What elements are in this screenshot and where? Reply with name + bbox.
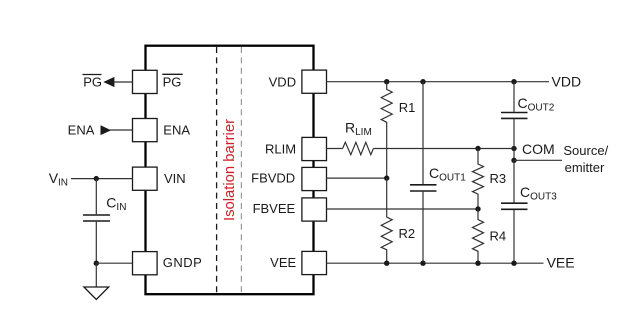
pin ENA box	[133, 119, 158, 142]
node PG (external label with overline)	[83, 74, 103, 89]
isolation barrier dashed line right	[240, 47, 242, 293]
junction VDD/COUT2	[511, 79, 516, 84]
pin label FBVDD (inside)	[251, 171, 295, 186]
svg-text:VDD: VDD	[269, 74, 296, 89]
resistor RLIM	[343, 142, 374, 154]
wire FBVEE to R3/R4 node	[327, 208, 479, 210]
wire COUT2 top	[513, 82, 515, 112]
junction CIN/GNDP	[94, 261, 99, 266]
RLIM value label	[345, 119, 372, 138]
wire RLIM pin to resistor	[327, 148, 343, 150]
wire RLIM resistor to COM	[373, 148, 514, 150]
isolation barrier label	[222, 119, 238, 221]
svg-text:Isolation barrier: Isolation barrier	[222, 119, 238, 221]
svg-text:RLIM: RLIM	[265, 142, 296, 157]
junction COM/R3	[475, 146, 480, 151]
wire COUT3 to VEE rail	[513, 210, 515, 263]
svg-text:PG: PG	[163, 74, 182, 89]
svg-text:FBVDD: FBVDD	[251, 171, 295, 186]
R4 value label	[490, 228, 507, 243]
IC U1 body (isolated gate driver outline)	[146, 46, 314, 295]
pin label ENA (inside)	[163, 122, 190, 137]
wire COUT1 to VEE rail	[422, 192, 424, 264]
junction VIN/CIN	[94, 176, 99, 181]
pin VIN box	[133, 167, 158, 190]
resistor R4	[473, 209, 484, 263]
junction VEE/COUT3	[511, 261, 516, 266]
svg-text:R2: R2	[399, 226, 416, 241]
pin label VDD (inside)	[269, 74, 296, 89]
pin label VIN (inside)	[164, 171, 186, 186]
resistor R3	[473, 149, 484, 210]
wire COUT1 column	[422, 82, 424, 184]
R2 value label	[399, 226, 416, 241]
wire COM down to COUT3 stub	[513, 149, 515, 161]
R3 value label	[490, 171, 507, 186]
node ENA (external label)	[68, 122, 95, 137]
pin VDD box	[302, 70, 327, 93]
pin label VEE (inside)	[270, 255, 296, 270]
capacitor COUT2	[501, 113, 528, 119]
resistor R1	[381, 82, 392, 178]
junction VEE/R4	[475, 261, 480, 266]
pin label RLIM (inside)	[265, 142, 296, 157]
wire VIN node down to CIN	[95, 179, 97, 215]
svg-text:VEE: VEE	[270, 255, 296, 270]
capacitor COUT3	[501, 203, 528, 209]
svg-text:ENA: ENA	[163, 122, 190, 137]
svg-text:COM: COM	[522, 141, 555, 157]
wire COUT3 top	[513, 160, 515, 202]
node VIN (external label)	[49, 170, 68, 189]
pin PG box	[133, 70, 158, 93]
wire FBVDD to R1/R2 node	[327, 177, 387, 179]
R1 value label	[399, 100, 416, 115]
capacitor COUT1	[410, 185, 437, 191]
ENA input arrowhead	[101, 125, 112, 135]
wire VEE rail	[327, 262, 544, 264]
node VEE label	[547, 255, 575, 271]
PG output arrowhead	[103, 77, 114, 87]
wire VIN to pin	[71, 178, 133, 180]
svg-text:R4: R4	[490, 228, 507, 243]
node COM label	[522, 141, 555, 157]
isolation barrier dashed line left	[216, 47, 218, 293]
svg-text:FBVEE: FBVEE	[253, 201, 296, 216]
junction VDD/R1	[384, 79, 389, 84]
COUT1 label	[429, 165, 466, 184]
resistor R2	[381, 178, 392, 263]
COUT2 label	[518, 95, 555, 114]
wire junction down to ground	[95, 263, 97, 287]
wire CIN down to ground node	[95, 222, 97, 264]
svg-text:VIN: VIN	[164, 171, 186, 186]
junction COM/COUT3	[511, 158, 516, 163]
junction VEE/COUT1	[420, 261, 425, 266]
node VDD label	[552, 73, 582, 89]
pin VEE box	[302, 251, 327, 274]
svg-text:VEE: VEE	[547, 255, 575, 271]
junction COM/COUT2	[511, 146, 516, 151]
pin FBVDD box	[302, 167, 327, 190]
svg-text:GNDP: GNDP	[163, 255, 203, 270]
svg-text:R1: R1	[399, 100, 416, 115]
node Source/emitter label	[563, 143, 608, 175]
pin FBVEE box	[302, 198, 327, 221]
svg-text:VDD: VDD	[552, 73, 582, 89]
pin label FBVEE (inside)	[253, 201, 296, 216]
svg-text:PG: PG	[83, 74, 102, 89]
wire COM stub to Source/emitter	[514, 159, 562, 161]
junction FBVEE/R3/R4	[475, 206, 480, 211]
junction VDD/COUT1	[420, 79, 425, 84]
svg-text:Source/: Source/	[563, 143, 608, 158]
COUT3 label	[520, 184, 557, 203]
pin label GNDP (inside)	[163, 255, 203, 270]
svg-text:emitter: emitter	[565, 160, 605, 175]
pin label PG (inside, with overline)	[162, 74, 182, 89]
wire junction to GNDP pin	[96, 262, 132, 264]
pin RLIM box	[302, 137, 327, 160]
junction VEE/R2	[384, 261, 389, 266]
wire PG arrow to pin	[114, 81, 133, 83]
capacitor CIN	[83, 215, 110, 221]
wire COUT2 to COM	[513, 119, 515, 148]
svg-text:ENA: ENA	[68, 122, 95, 137]
wire ENA arrow to pin	[110, 129, 133, 131]
ground	[84, 287, 109, 300]
pin GNDP box	[133, 252, 158, 275]
svg-text:R3: R3	[490, 171, 507, 186]
capacitor CIN label	[106, 194, 126, 213]
junction FBVDD/R1/R2	[384, 175, 389, 180]
wire VDD rail	[327, 81, 550, 83]
